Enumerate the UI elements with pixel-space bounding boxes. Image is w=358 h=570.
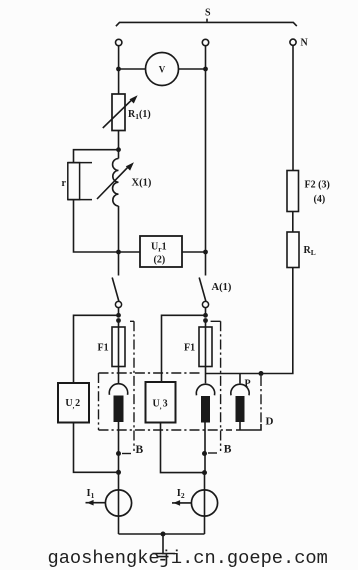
svg-text:F2 (3): F2 (3)	[305, 180, 330, 191]
svg-text:P: P	[245, 378, 251, 389]
svg-text:F1: F1	[184, 343, 195, 354]
svg-text:S: S	[205, 8, 211, 19]
svg-text:gaoshengkeji.cn.goepe.com: gaoshengkeji.cn.goepe.com	[48, 547, 328, 569]
svg-text:R1(1): R1(1)	[128, 109, 151, 121]
svg-text:r: r	[62, 178, 67, 189]
svg-text:B: B	[224, 444, 232, 456]
svg-text:F1: F1	[98, 343, 109, 354]
svg-text:I1: I1	[87, 488, 95, 500]
svg-text:B: B	[136, 444, 144, 456]
svg-text:(2): (2)	[154, 255, 166, 266]
svg-text:D: D	[266, 416, 274, 428]
svg-text:A(1): A(1)	[212, 282, 232, 293]
svg-text:X(1): X(1)	[132, 178, 152, 189]
svg-text:I2: I2	[177, 488, 185, 500]
svg-text:V: V	[159, 64, 166, 74]
svg-text:(4): (4)	[314, 194, 326, 205]
svg-text:N: N	[301, 38, 309, 49]
svg-text:RL: RL	[304, 245, 316, 257]
